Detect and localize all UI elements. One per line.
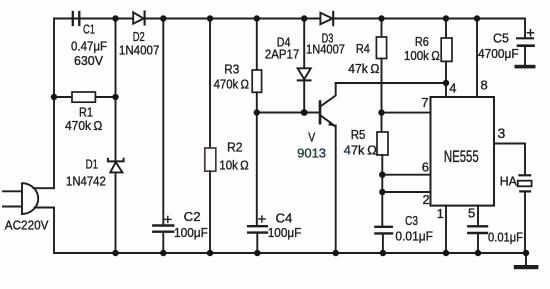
wire left rail lower segment: [53, 208, 55, 254]
node D4 top: [301, 15, 307, 21]
node R4 top: [378, 15, 384, 21]
wire base line node to transistor: [257, 112, 319, 114]
svg-text:0.01μF: 0.01μF: [488, 230, 523, 245]
wire vertical to R6: [445, 19, 447, 39]
wire left rail upper segment: [53, 19, 55, 189]
svg-text:R5: R5: [351, 127, 366, 142]
svg-text:2: 2: [423, 192, 430, 207]
wire HA ground stub: [525, 253, 527, 265]
wire vertical to D4: [303, 19, 305, 69]
svg-text:8: 8: [481, 77, 488, 92]
wire R5 to nodes 6 and 2 and C3: [381, 155, 383, 226]
node pin6: [379, 172, 385, 178]
diode D4 2AP17: [298, 68, 311, 80]
node C3 bottom rail: [380, 250, 386, 256]
svg-text:4700μF: 4700μF: [478, 46, 519, 61]
svg-text:D1: D1: [86, 157, 98, 172]
zener diode D1 1N4742: [108, 159, 124, 173]
wire collector line to R6 bottom: [336, 82, 446, 84]
svg-text:C5: C5: [493, 31, 509, 46]
svg-text:9013: 9013: [297, 145, 326, 160]
wire bottom rail: [54, 252, 526, 254]
node pin2: [379, 189, 385, 195]
svg-text:0.01μF: 0.01μF: [395, 228, 433, 243]
node R3 bottom: [254, 109, 260, 115]
svg-text:100k Ω: 100k Ω: [404, 48, 440, 63]
svg-text:C2: C2: [184, 209, 201, 224]
svg-text:R3: R3: [224, 62, 239, 77]
node D4 bottom: [301, 109, 308, 116]
svg-text:1N4007: 1N4007: [119, 42, 159, 57]
plug P AC220V: [3, 183, 54, 214]
svg-text:1: 1: [437, 206, 444, 221]
svg-text:C1: C1: [83, 22, 95, 37]
wire pin7 line: [382, 112, 431, 114]
resistor R1: [54, 92, 116, 102]
wire R4 to node 7: [381, 59, 383, 133]
svg-text:NE555: NE555: [444, 148, 479, 166]
capacitor C3: [375, 227, 392, 253]
resistor R3: [252, 70, 261, 92]
svg-text:R2: R2: [227, 140, 243, 155]
wire D4 to base node: [303, 80, 305, 112]
svg-text:47k Ω: 47k Ω: [344, 142, 378, 157]
node R2 bottom rail: [207, 250, 213, 256]
wire pin1 to bottom rail: [445, 206, 447, 253]
svg-text:470k Ω: 470k Ω: [214, 77, 250, 92]
node pin5 bottom rail: [475, 250, 481, 256]
wire vertical to R2: [209, 19, 211, 149]
wire emitter to bottom rail: [335, 126, 337, 254]
svg-text:C3: C3: [405, 213, 418, 228]
node HA bottom rail: [523, 250, 529, 256]
svg-text:R4: R4: [356, 41, 370, 56]
diode D2 1N4007: [133, 12, 144, 25]
wire pin8 from top rail: [476, 19, 478, 98]
node R1 left: [51, 94, 57, 100]
node R1 right: [112, 94, 118, 100]
wire pin3 line to HA: [494, 144, 525, 175]
wire vertical to R4: [381, 19, 383, 38]
svg-text:630V: 630V: [74, 53, 103, 68]
resistor R6: [441, 38, 452, 61]
capacitor C4: [248, 216, 267, 253]
svg-text:C4: C4: [276, 210, 293, 225]
node pin8 top: [474, 15, 480, 21]
node C4 bottom rail: [254, 250, 260, 256]
node D1 bottom rail: [112, 250, 118, 256]
wire pin6 line: [382, 174, 430, 176]
svg-text:AC220V: AC220V: [5, 217, 49, 232]
resistor R2: [205, 148, 216, 171]
node R4-R5 pin7: [378, 109, 384, 115]
diode D3 1N4007: [320, 12, 333, 25]
svg-text:R6: R6: [415, 34, 429, 49]
node R6 bottom pin4: [443, 80, 449, 86]
svg-text:7: 7: [421, 95, 428, 110]
wire pin2 line: [382, 191, 430, 193]
op-amp U1 NE555 box: [431, 97, 495, 206]
svg-text:470k Ω: 470k Ω: [65, 118, 103, 133]
resistor R4: [376, 37, 386, 59]
svg-text:0.47μF: 0.47μF: [71, 39, 107, 54]
node emitter bottom rail: [333, 250, 339, 256]
capacitor C6 0.01uF: [468, 226, 487, 253]
svg-text:100μF: 100μF: [174, 225, 208, 240]
svg-text:1N4007: 1N4007: [306, 42, 345, 57]
capacitor C5: [517, 30, 534, 65]
buzzer HA: [518, 175, 532, 253]
wire top rail corner to C5: [524, 19, 526, 39]
node R2 top: [207, 15, 213, 21]
wire R2 to bottom rail: [209, 171, 211, 253]
svg-text:10k Ω: 10k Ω: [219, 158, 249, 173]
ground below C5: [515, 65, 536, 69]
svg-text:2AP17: 2AP17: [265, 46, 299, 61]
node R3 top: [254, 15, 260, 21]
ground below HA: [514, 265, 539, 269]
svg-text:4: 4: [449, 80, 456, 95]
wire R6 to pin4 node: [445, 61, 447, 97]
wire top rail: [54, 18, 525, 20]
svg-text:V: V: [308, 129, 315, 144]
node pin1 bottom rail: [443, 250, 449, 256]
svg-text:HA: HA: [500, 174, 517, 189]
wire pin5 to capacitor: [477, 206, 479, 226]
transistor V 9013: [320, 83, 336, 126]
node D2-C2 junction: [160, 15, 166, 21]
svg-text:5: 5: [468, 205, 475, 220]
node C2 bottom rail: [160, 250, 166, 256]
node C1-D2 junction: [112, 15, 118, 21]
capacitor C2: [153, 216, 173, 253]
svg-text:47k Ω: 47k Ω: [348, 61, 379, 76]
svg-text:3: 3: [498, 125, 506, 141]
svg-text:100μF: 100μF: [268, 225, 302, 240]
wire R3 to node and C4: [256, 92, 258, 226]
wire vertical to R3: [256, 19, 258, 71]
wire vertical C1/D2 junction to R1 and D1: [115, 19, 117, 254]
resistor R5: [377, 132, 388, 155]
wire vertical to C2: [162, 19, 164, 226]
capacitor C1: [73, 12, 80, 25]
svg-text:1N4742: 1N4742: [66, 173, 106, 188]
node R6 top: [443, 15, 449, 21]
svg-text:6: 6: [422, 160, 429, 175]
